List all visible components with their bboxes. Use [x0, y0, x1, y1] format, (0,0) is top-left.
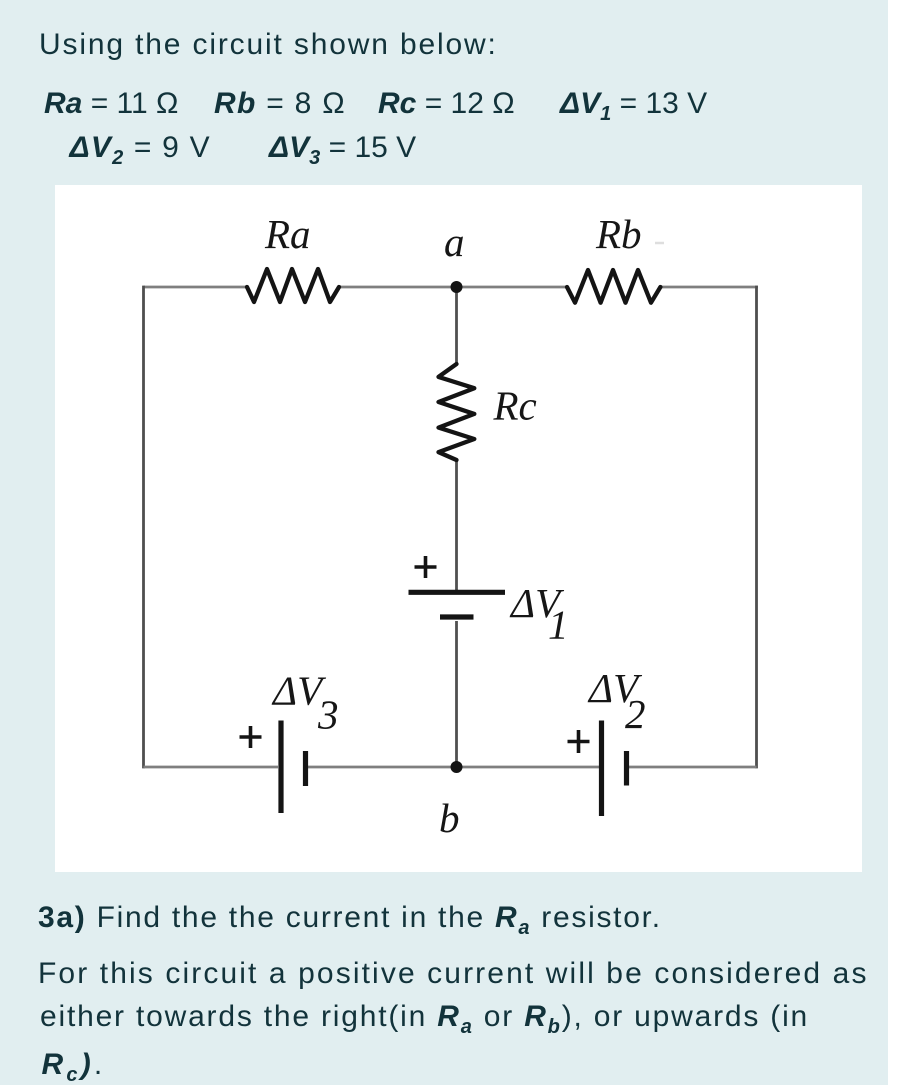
svg-text:3: 3: [317, 692, 339, 738]
battery ΔV1 long plate: [409, 590, 506, 595]
battery ΔV2 plus sign: [568, 730, 590, 753]
battery ΔV1 short plate: [440, 614, 474, 619]
svg-text:Rc: Rc: [493, 383, 537, 429]
wire middle branch between Rc and battery: [455, 460, 458, 590]
svg-text:2: 2: [625, 691, 646, 737]
resistor Rb: [567, 270, 660, 303]
svg-text:Ra: Ra: [264, 211, 311, 257]
svg-text:a: a: [444, 219, 465, 265]
battery ΔV1 plus sign: [415, 556, 437, 578]
wire bottom-right segment: [629, 766, 757, 769]
svg-text:1: 1: [548, 602, 569, 648]
battery ΔV3 long plate: [278, 721, 283, 814]
wire middle branch lower: [455, 621, 458, 767]
svg-text:b: b: [439, 795, 460, 841]
wire top-right segment: [660, 286, 758, 289]
wire top-middle segment: [339, 286, 567, 289]
wire top-left segment: [144, 286, 248, 289]
battery ΔV2 short plate: [624, 751, 629, 786]
battery ΔV3 short plate: [303, 751, 308, 786]
battery ΔV2 long plate: [599, 721, 604, 817]
wire middle branch upper: [455, 287, 458, 364]
wire right side: [755, 286, 758, 769]
node a junction dot: [451, 281, 463, 293]
stray dash after Rb: [655, 242, 664, 245]
svg-text:Rb: Rb: [595, 211, 642, 257]
resistor Ra: [247, 269, 339, 302]
wire left side: [142, 286, 145, 769]
node b junction dot: [451, 761, 463, 773]
wire bottom-left segment: [144, 766, 279, 769]
wire bottom-middle segment: [308, 766, 599, 769]
battery ΔV3 plus sign: [240, 726, 262, 748]
resistor Rc: [439, 364, 475, 460]
